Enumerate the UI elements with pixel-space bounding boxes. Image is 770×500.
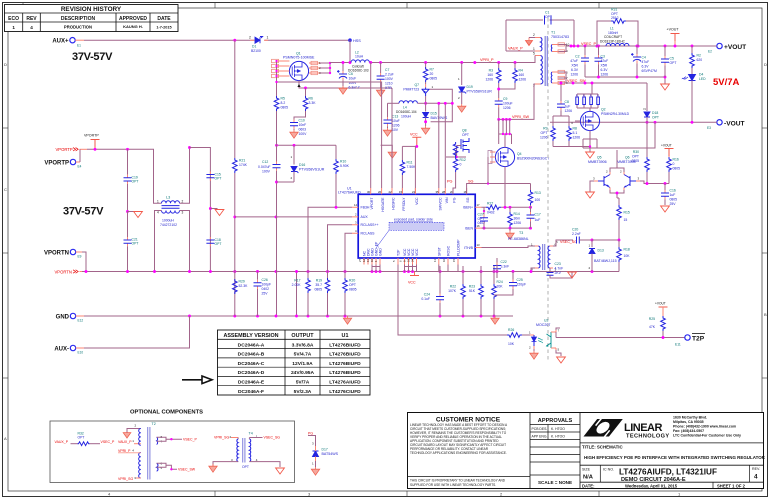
T1 primary main winding xyxy=(535,56,541,85)
resistor R29 xyxy=(233,279,249,294)
resistor R19 xyxy=(314,250,329,316)
wire T2 sec top to VSEC_P xyxy=(157,437,182,441)
svg-text:37V-57V: 37V-57V xyxy=(63,206,104,218)
svg-text:T4: T4 xyxy=(249,432,253,436)
svg-text:R5: R5 xyxy=(281,97,285,101)
resistor R5 gate xyxy=(274,82,288,145)
diode D15 xyxy=(421,109,447,134)
wire Q5/Q6 tops xyxy=(610,150,624,172)
svg-text:R27: R27 xyxy=(487,202,493,206)
svg-text:1206: 1206 xyxy=(485,78,493,82)
svg-text:5.1: 5.1 xyxy=(573,131,578,135)
svg-text:Q2: Q2 xyxy=(601,108,606,112)
capacitor C3 xyxy=(595,46,609,77)
svg-text:VPRI_SW: VPRI_SW xyxy=(512,115,530,119)
wire L3 pin3 to VPORTN vertical xyxy=(180,211,190,272)
svg-text:30: 30 xyxy=(367,190,371,194)
svg-text:SIZE: SIZE xyxy=(582,468,591,472)
svg-text:LT4276BIUFD: LT4276BIUFD xyxy=(329,361,361,367)
svg-text:THIS CIRCUIT IS PROPRIETARY TO: THIS CIRCUIT IS PROPRIETARY TO LINEAR TE… xyxy=(410,479,506,483)
svg-text:R22: R22 xyxy=(450,285,456,289)
capacitor C2 xyxy=(570,46,589,77)
svg-text:DC2046A-D: DC2046A-D xyxy=(238,370,265,376)
svg-text:35: 35 xyxy=(436,190,440,194)
svg-text:100pF: 100pF xyxy=(262,283,272,287)
junction dots VPRI rail xyxy=(369,61,476,64)
svg-text:DC2046A-E: DC2046A-E xyxy=(238,380,265,386)
svg-text:10nF: 10nF xyxy=(299,123,307,127)
svg-text:51K: 51K xyxy=(469,289,476,293)
svg-text:VIN: VIN xyxy=(445,197,449,203)
U1 bottom pin stubs xyxy=(358,258,458,265)
wires U1 bottom pins to rail xyxy=(372,265,497,272)
svg-text:8.2: 8.2 xyxy=(281,101,286,105)
power flag VCC bottom xyxy=(408,272,419,285)
svg-text:VPRI_SG: VPRI_SG xyxy=(118,477,133,481)
common mode choke L3 xyxy=(157,196,184,228)
svg-text:DC2046A-F: DC2046A-F xyxy=(238,389,264,395)
inductor L2 xyxy=(330,51,499,73)
svg-text:R30: R30 xyxy=(633,150,639,154)
svg-text:R25: R25 xyxy=(649,317,655,321)
svg-text:10uH: 10uH xyxy=(355,55,364,59)
resistor R17 xyxy=(292,272,311,317)
svg-text:VPRI_SG: VPRI_SG xyxy=(214,436,229,440)
capacitor C9 xyxy=(495,88,513,120)
svg-text:C3: C3 xyxy=(601,55,605,59)
inductor L1 xyxy=(600,27,629,47)
svg-text:ASSEMBLY VERSION: ASSEMBLY VERSION xyxy=(223,333,278,339)
svg-text:10: 10 xyxy=(442,258,446,262)
isolation barrier dashed xyxy=(547,18,549,360)
svg-text:VSEC_SG: VSEC_SG xyxy=(560,240,577,244)
svg-text:LT4276CIUFD: LT4276CIUFD xyxy=(329,389,361,395)
node junction dot AUX+/R21 column xyxy=(233,39,236,42)
svg-text:0402: 0402 xyxy=(478,221,486,225)
svg-text:DC2046A-B: DC2046A-B xyxy=(238,352,265,358)
svg-text:C25: C25 xyxy=(517,278,523,282)
svg-text:T1: T1 xyxy=(551,31,555,35)
terminal E4 VPORTP xyxy=(44,159,81,168)
svg-text:6.3V: 6.3V xyxy=(601,68,609,72)
wire Q4 source down to ISEN xyxy=(504,167,506,208)
svg-text:VPORTN: VPORTN xyxy=(44,250,69,256)
svg-text:0.1uF: 0.1uF xyxy=(421,297,430,301)
svg-text:C22: C22 xyxy=(501,260,507,264)
capacitor C25 xyxy=(494,272,526,296)
svg-text:26: 26 xyxy=(378,190,382,194)
svg-text:R7: R7 xyxy=(430,68,434,72)
svg-text:12V/1.9A: 12V/1.9A xyxy=(292,361,313,367)
svg-text:37V-57V: 37V-57V xyxy=(72,51,113,63)
svg-text:1206: 1206 xyxy=(514,221,522,225)
svg-text:+VOUT: +VOUT xyxy=(661,144,672,148)
power arrow VAUX opt xyxy=(123,424,141,439)
mosfet Q1 xyxy=(283,52,315,81)
wire Q5/Q6 emitters join xyxy=(610,190,624,198)
svg-text:47uF: 47uF xyxy=(570,59,578,63)
inductor L4 xyxy=(388,101,426,114)
capacitor C17 xyxy=(527,212,541,228)
svg-text:0: 0 xyxy=(673,162,675,166)
svg-text:750314783: 750314783 xyxy=(551,35,569,39)
svg-text:6.3V: 6.3V xyxy=(571,68,579,72)
wire C1 right drop xyxy=(573,20,575,46)
resistor R26 xyxy=(507,328,530,346)
svg-text:VCC: VCC xyxy=(408,281,416,285)
svg-text:R8: R8 xyxy=(573,127,577,131)
svg-text:4: 4 xyxy=(157,211,159,215)
svg-text:R17: R17 xyxy=(294,279,300,283)
wire GND rail xyxy=(76,315,84,317)
svg-text:3.3nF: 3.3nF xyxy=(501,265,510,269)
svg-text:Fax: (408)434-0507: Fax: (408)434-0507 xyxy=(673,429,704,433)
ground arrow on GND rail xyxy=(343,316,351,324)
U1 right pin labels xyxy=(463,206,474,250)
resistor R22 xyxy=(448,266,465,316)
junction dot AUX line R21 xyxy=(233,215,236,218)
U1 bottom pin labels xyxy=(363,239,461,256)
svg-text:620: 620 xyxy=(697,58,703,62)
capacitor C16 xyxy=(661,184,678,213)
junction dots VPORTN rail xyxy=(85,270,594,273)
svg-text:C17: C17 xyxy=(535,213,541,217)
junction dots AUX line xyxy=(275,215,278,218)
svg-text:X5R: X5R xyxy=(571,64,578,68)
svg-text:D1: D1 xyxy=(252,45,256,49)
resistor R23 xyxy=(469,266,484,316)
wire T4 pin3 to gnd xyxy=(213,462,238,466)
svg-text:13: 13 xyxy=(477,243,481,247)
svg-text:0: 0 xyxy=(460,163,462,167)
node HSS xyxy=(348,38,361,42)
svg-text:Q5: Q5 xyxy=(597,156,602,160)
arrow pointing at row E xyxy=(182,376,212,384)
svg-text:T2: T2 xyxy=(152,422,156,426)
svg-text:HSSRC: HSSRC xyxy=(392,197,396,210)
svg-text:A: A xyxy=(4,436,7,441)
gate pin boxes Q1 xyxy=(272,59,290,82)
svg-text:LT4276AIUFD: LT4276AIUFD xyxy=(338,191,361,195)
wire -VOUT rail xyxy=(550,121,717,123)
svg-text:R4: R4 xyxy=(519,69,523,73)
wire VSEC_SW rail xyxy=(559,72,593,95)
wire output gnd bus xyxy=(585,77,665,84)
capacitor C6 polarized xyxy=(337,61,360,94)
gate boxes Q4 xyxy=(488,151,495,184)
svg-text:2.00K: 2.00K xyxy=(292,283,302,287)
wire Q1 drain to rail xyxy=(320,63,330,74)
svg-text:5V/2.3A: 5V/2.3A xyxy=(294,389,312,395)
wire Q4 drain rail xyxy=(499,134,512,147)
capacitor C27 xyxy=(478,207,489,229)
diode D17 xyxy=(312,442,339,468)
svg-text:R10: R10 xyxy=(340,160,346,164)
svg-text:LINEAR: LINEAR xyxy=(624,422,663,434)
svg-text:PSMN2R4-30MLD: PSMN2R4-30MLD xyxy=(601,112,630,116)
net label PG bottom xyxy=(308,431,316,446)
resistor R21 xyxy=(233,158,248,173)
svg-text:ROSC: ROSC xyxy=(447,245,451,256)
svg-text:DO1813P-181HC: DO1813P-181HC xyxy=(600,39,626,43)
wire C12 column to GND rail xyxy=(277,272,297,317)
svg-text:LT4276BIUFD: LT4276BIUFD xyxy=(329,342,361,348)
capacitor C19 xyxy=(124,149,139,211)
svg-text:OPT: OPT xyxy=(545,15,552,19)
svg-text:107K: 107K xyxy=(448,289,457,293)
svg-text:2.2uF: 2.2uF xyxy=(385,73,394,77)
svg-text:OPT: OPT xyxy=(541,131,548,135)
svg-text:K. HTOO: K. HTOO xyxy=(551,435,565,439)
mosfet Q8 OPT small xyxy=(446,129,469,159)
approvals cell xyxy=(579,413,581,489)
svg-text:OPT: OPT xyxy=(132,180,139,184)
svg-text:VPRI_P: VPRI_P xyxy=(480,58,494,62)
wire T3 pin4 xyxy=(531,268,535,272)
svg-text:E10: E10 xyxy=(78,351,84,355)
resistor R2 xyxy=(690,46,703,73)
ground open triangle output xyxy=(661,84,670,90)
svg-text:VPORT: VPORT xyxy=(370,197,374,210)
svg-text:R18: R18 xyxy=(624,248,630,252)
svg-text:R16: R16 xyxy=(673,158,679,162)
svg-text:C20: C20 xyxy=(572,228,578,232)
svg-text:MMBT3906: MMBT3906 xyxy=(588,160,607,164)
LED D4 xyxy=(682,73,707,123)
svg-text:47uF: 47uF xyxy=(642,60,650,64)
svg-text:Wednesday, April 01, 2015: Wednesday, April 01, 2015 xyxy=(625,483,678,488)
svg-text:PG: PG xyxy=(308,431,313,435)
wire VPORTP rail xyxy=(80,148,88,150)
svg-text:PSMN075-100MSE: PSMN075-100MSE xyxy=(283,56,315,60)
svg-text:R9: R9 xyxy=(543,127,547,131)
svg-text:OPT: OPT xyxy=(215,242,222,246)
svg-text:D15: D15 xyxy=(431,112,437,116)
svg-text:R29: R29 xyxy=(239,280,245,284)
svg-text:5.90K: 5.90K xyxy=(340,164,350,168)
svg-text:RCLASS: RCLASS xyxy=(361,232,376,236)
U1 top pin labels xyxy=(370,197,470,212)
svg-text:OPT: OPT xyxy=(632,155,639,159)
svg-text:5: 5 xyxy=(533,52,535,56)
svg-text:VPORTP: VPORTP xyxy=(44,160,69,166)
svg-text:BAT46WJ,115: BAT46WJ,115 xyxy=(594,259,617,263)
capacitor C1 top xyxy=(506,11,574,25)
net label VPORTP xyxy=(56,147,79,152)
capacitor C21 xyxy=(124,212,139,272)
capacitor C20 xyxy=(572,228,592,244)
wire RCLASS++ to R19 xyxy=(328,225,353,250)
wire AUX- to GND link xyxy=(76,347,84,349)
svg-text:5V/4.7A: 5V/4.7A xyxy=(294,352,312,358)
wire T4 pin1 to VSEC_SG xyxy=(249,437,262,439)
source arrow mark xyxy=(297,84,300,87)
svg-text:MMBT3904: MMBT3904 xyxy=(617,160,636,164)
svg-text:3: 3 xyxy=(182,211,184,215)
svg-text:TECHNOLOGY APPLICATIONS ENGINE: TECHNOLOGY APPLICATIONS ENGINEERING FOR … xyxy=(410,451,507,455)
svg-text:R21: R21 xyxy=(239,159,245,163)
junction dot L4 node xyxy=(424,102,427,105)
array bottom to Q2 drain xyxy=(577,105,598,111)
svg-text:15: 15 xyxy=(399,190,403,194)
wire AUX+ rail xyxy=(75,39,84,41)
svg-text:C: C xyxy=(4,187,7,192)
svg-text:0805: 0805 xyxy=(673,167,681,171)
transformer T1 xyxy=(533,31,570,88)
wire VAUX_P to T1 pin1 xyxy=(506,50,535,52)
ground open triangle opto out xyxy=(556,350,565,363)
U1 right pin stubs xyxy=(475,203,481,248)
svg-text:OUTPUT: OUTPUT xyxy=(291,333,314,339)
wire Q2 source xyxy=(583,122,655,152)
svg-text:C12: C12 xyxy=(262,160,268,164)
svg-text:PRODUCTION: PRODUCTION xyxy=(64,25,92,30)
svg-text:R19: R19 xyxy=(316,279,322,283)
svg-text:0603: 0603 xyxy=(299,128,307,132)
svg-text:OPT: OPT xyxy=(462,133,469,137)
svg-text:10K: 10K xyxy=(508,342,515,346)
terminal E12 GND xyxy=(56,313,84,322)
ground open triangle Q2 xyxy=(586,152,595,158)
svg-text:100uH: 100uH xyxy=(401,115,412,119)
svg-text:DATE: DATE xyxy=(157,16,171,22)
resistor R11 xyxy=(400,146,416,195)
resistor R16 xyxy=(667,156,680,184)
resistor R13 xyxy=(528,184,541,213)
wire 4x link array to Q4 drain xyxy=(499,119,510,134)
svg-text:R6: R6 xyxy=(309,97,313,101)
resistor R15 xyxy=(617,198,630,240)
svg-text:VSEC_SW: VSEC_SW xyxy=(567,79,586,83)
svg-text:LT4276BIUFD: LT4276BIUFD xyxy=(329,352,361,358)
svg-text:VCC: VCC xyxy=(410,133,418,137)
svg-text:VSEC_P: VSEC_P xyxy=(581,42,596,46)
power flag VCC mid xyxy=(402,133,421,196)
svg-text:2KV: 2KV xyxy=(555,271,562,275)
mosfet Q2 xyxy=(571,108,630,131)
svg-text:4.7nF: 4.7nF xyxy=(555,267,564,271)
svg-text:PTVS58VS1UR: PTVS58VS1UR xyxy=(299,168,325,172)
customer notice cell xyxy=(529,413,531,489)
wire L3 pin2 up to C15 feed xyxy=(180,148,190,204)
svg-text:E3: E3 xyxy=(707,126,711,130)
svg-text:C2: C2 xyxy=(575,55,579,59)
junction dot VPORTP flag xyxy=(94,148,97,151)
svg-text:0.047uF: 0.047uF xyxy=(258,165,270,169)
wire SWVCC VIN up xyxy=(439,103,446,188)
wire HSSRC up to Q1 source xyxy=(391,88,393,188)
svg-text:REV: REV xyxy=(26,16,37,22)
terminal E1 AUX+ xyxy=(52,38,81,48)
svg-text:RCLASS++: RCLASS++ xyxy=(361,223,379,227)
svg-text:+VOUT: +VOUT xyxy=(667,28,680,32)
svg-text:0805: 0805 xyxy=(430,77,438,81)
svg-text:744272102: 744272102 xyxy=(160,223,177,227)
svg-text:DESCRIPTION: DESCRIPTION xyxy=(61,16,96,22)
svg-text:VPORTN: VPORTN xyxy=(55,270,72,275)
svg-text:1630 McCarthy Blvd.: 1630 McCarthy Blvd. xyxy=(673,416,707,420)
svg-text:VCC: VCC xyxy=(415,197,419,205)
svg-text:100uF: 100uF xyxy=(503,102,513,106)
net label VAUX_P xyxy=(508,38,533,51)
svg-text:PLLDCMP: PLLDCMP xyxy=(457,239,461,256)
wire VPRI_SW rail xyxy=(499,84,535,119)
svg-text:E9: E9 xyxy=(78,255,82,259)
wire T2 sec bottom to VSEC_SW xyxy=(157,463,177,469)
svg-text:T3: T3 xyxy=(519,231,523,235)
svg-text:R24: R24 xyxy=(497,280,503,284)
svg-text:N/A: N/A xyxy=(583,475,594,481)
svg-text:35.7: 35.7 xyxy=(315,283,322,287)
resistor R27 xyxy=(486,202,501,215)
svg-text:LT4276BIUFD: LT4276BIUFD xyxy=(329,370,361,376)
svg-text:R15: R15 xyxy=(624,211,630,215)
junction dot C12/D16 link xyxy=(275,181,278,184)
svg-text:17: 17 xyxy=(477,203,481,207)
svg-text:HSGATE: HSGATE xyxy=(381,197,385,212)
svg-text:6.3x7.7: 6.3x7.7 xyxy=(349,86,360,90)
terminal E10 AUX- xyxy=(54,345,83,354)
svg-text:24V/0.95A: 24V/0.95A xyxy=(291,370,315,376)
svg-text:KAUNG H.: KAUNG H. xyxy=(123,24,143,29)
svg-text:FB3H: FB3H xyxy=(361,206,370,210)
svg-text:SWVCC: SWVCC xyxy=(438,197,442,211)
svg-text:HSS: HSS xyxy=(353,39,361,43)
svg-text:OPT: OPT xyxy=(132,242,139,246)
svg-text:VPORTP: VPORTP xyxy=(56,147,73,152)
resistor R12 xyxy=(446,142,466,194)
svg-text:SFST: SFST xyxy=(437,246,441,256)
svg-text:VPORTP: VPORTP xyxy=(84,134,99,138)
T1 primary aux winding xyxy=(535,38,541,52)
svg-text:BSZ900N20NS3GCT: BSZ900N20NS3GCT xyxy=(517,157,549,161)
svg-text:VSEC_P: VSEC_P xyxy=(101,440,115,444)
svg-text:4: 4 xyxy=(30,25,33,30)
resistor R31 bypass xyxy=(597,8,638,47)
svg-text:R3: R3 xyxy=(489,69,493,73)
U1 exposed pad xyxy=(376,218,444,248)
svg-text:D17: D17 xyxy=(322,448,328,452)
svg-text:Milpitas, CA 95035: Milpitas, CA 95035 xyxy=(673,420,704,424)
svg-text:47K: 47K xyxy=(649,325,656,329)
U1 left pin labels xyxy=(361,206,379,236)
svg-text:-VOUT: -VOUT xyxy=(724,120,745,127)
svg-text:AUX+: AUX+ xyxy=(52,39,69,45)
power flag VPORTP xyxy=(84,134,100,150)
svg-text:1206: 1206 xyxy=(565,109,573,113)
capacitor C23 xyxy=(547,262,577,278)
svg-text:DC2046A-C: DC2046A-C xyxy=(238,361,265,367)
svg-text:IC NO.: IC NO. xyxy=(603,468,614,472)
svg-text:1uF: 1uF xyxy=(670,193,676,197)
svg-text:24: 24 xyxy=(411,258,415,262)
svg-text:+VOUT: +VOUT xyxy=(724,44,746,51)
svg-text:VAUX_P: VAUX_P xyxy=(508,47,523,51)
wire FB3H to R17 column xyxy=(308,207,352,271)
svg-text:BAT54WS: BAT54WS xyxy=(322,452,339,456)
svg-text:1: 1 xyxy=(267,36,269,40)
wire HSS to L2 xyxy=(349,40,351,62)
wire VSEC_P rail xyxy=(559,45,718,47)
op-amp U1 body xyxy=(338,186,475,258)
capacitor C8 xyxy=(553,95,572,116)
svg-text:C10: C10 xyxy=(299,119,305,123)
svg-text:1206: 1206 xyxy=(392,124,400,128)
svg-text:VAUX_P: VAUX_P xyxy=(55,440,69,444)
ground open triangle T4 right xyxy=(276,468,285,474)
capacitor C7 xyxy=(376,63,393,97)
svg-text:174K: 174K xyxy=(239,163,248,167)
